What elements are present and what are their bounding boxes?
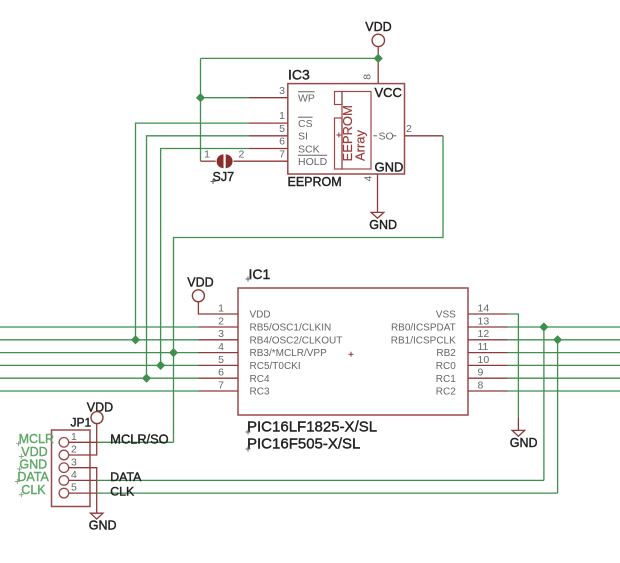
svg-text:VDD: VDD bbox=[365, 20, 391, 34]
wire pin 11 net to right edge bbox=[508, 352, 620, 354]
ground symbol pin (right) bbox=[517, 418, 519, 431]
svg-text:SCK: SCK bbox=[298, 143, 320, 155]
svg-text:CLK: CLK bbox=[21, 483, 46, 497]
wire SO net: right, down, left, down to MCLR/SO row bbox=[174, 136, 444, 443]
svg-text:6: 6 bbox=[218, 367, 224, 379]
svg-text:5: 5 bbox=[218, 354, 224, 366]
svg-text:1: 1 bbox=[279, 110, 285, 122]
pin name VDD bbox=[250, 310, 271, 321]
EEPROM value label bbox=[288, 175, 342, 189]
power symbol VDD (above JP1) bbox=[87, 400, 113, 423]
svg-text:GND: GND bbox=[375, 160, 404, 175]
net label VDD (green, xref) bbox=[19, 445, 48, 459]
svg-text:VDD: VDD bbox=[250, 310, 271, 321]
svg-text:5: 5 bbox=[279, 123, 285, 135]
pin number 2 bbox=[406, 123, 412, 135]
pin name CS (active low) bbox=[298, 117, 313, 130]
pin number 6 bbox=[218, 367, 224, 379]
svg-text:EEPROM: EEPROM bbox=[288, 175, 342, 189]
svg-text:JP1: JP1 bbox=[71, 415, 92, 429]
pin number 1 bbox=[279, 110, 285, 122]
pin number 3 bbox=[218, 328, 224, 340]
svg-text:RB0/ICSPDAT: RB0/ICSPDAT bbox=[391, 323, 456, 334]
wire VSS to ground column bbox=[508, 314, 519, 418]
junction on VDD net at pin 8 column bbox=[374, 54, 383, 63]
wire RC4 net to left edge bbox=[0, 377, 199, 379]
JP1 connector body box bbox=[52, 430, 91, 507]
svg-text:DATA: DATA bbox=[17, 470, 49, 484]
pin number 4 bbox=[218, 341, 224, 353]
wire DATA net from JP1 pin 4 to ICSPDAT column bbox=[97, 479, 544, 481]
junction WP wire tap bbox=[196, 93, 205, 102]
pin name SCK bbox=[298, 143, 320, 155]
pin 1 stub CS bbox=[249, 122, 288, 124]
wire pin 8 net to right edge bbox=[508, 390, 620, 392]
junction CS net at RB4 wire bbox=[131, 335, 140, 344]
JP1 pin 1 stub bbox=[69, 441, 97, 443]
svg-text:6: 6 bbox=[279, 136, 285, 148]
wire RC5 net to left edge bbox=[0, 364, 199, 366]
wire WP/VDD vertical column down to SJ7 bbox=[200, 58, 202, 161]
GND label (below JP1) bbox=[89, 519, 117, 533]
svg-text:GND: GND bbox=[89, 519, 117, 533]
svg-text:GND: GND bbox=[369, 218, 397, 232]
wire CS net: to pin1 stub, corner, down to RB4 row bbox=[136, 123, 250, 340]
net label MCLR (green, xref) bbox=[16, 432, 54, 446]
pin 2 stub (IC3 SO) bbox=[405, 135, 444, 137]
pin 2 stub (IC1 left) bbox=[199, 326, 239, 328]
pin number 3 bbox=[279, 85, 285, 97]
svg-text:7: 7 bbox=[218, 379, 224, 391]
svg-text:RB5/OSC1/CLKIN: RB5/OSC1/CLKIN bbox=[250, 323, 332, 334]
svg-text:PIC16LF1825-X/SL: PIC16LF1825-X/SL bbox=[247, 419, 377, 436]
svg-text:8: 8 bbox=[478, 379, 484, 391]
IC1 value label line 1 bbox=[246, 419, 378, 436]
wire ICSPDAT net down to DATA row bbox=[543, 327, 545, 480]
svg-text:4: 4 bbox=[362, 176, 374, 182]
GND label (right) bbox=[510, 436, 538, 450]
pin 4 stub (IC3 GND) down to ground symbol bbox=[377, 174, 379, 212]
svg-text:3: 3 bbox=[71, 456, 77, 468]
pin name RB5/OSC1/CLKIN bbox=[250, 323, 332, 334]
pin name WP (active low) bbox=[298, 92, 315, 105]
pin number 8 bbox=[478, 379, 484, 391]
pin number 12 bbox=[478, 328, 490, 340]
svg-text:1: 1 bbox=[218, 302, 224, 314]
svg-text:5: 5 bbox=[71, 482, 77, 494]
svg-text:IC3: IC3 bbox=[288, 66, 310, 82]
pin number 2 bbox=[218, 315, 224, 327]
SJ7 pin number 1 bbox=[204, 148, 210, 160]
pin 13 stub (IC1 right) bbox=[468, 326, 508, 328]
SJ7 pin number 2 bbox=[239, 148, 245, 160]
svg-text:VDD: VDD bbox=[187, 276, 213, 290]
JP1 pin 5 contact circle bbox=[59, 488, 69, 498]
junction ICSPDAT net bbox=[539, 322, 548, 331]
JP1 pin 2 contact circle bbox=[59, 450, 69, 460]
svg-text:SO: SO bbox=[379, 130, 394, 142]
svg-text:SI: SI bbox=[298, 131, 308, 143]
pin name RC3 bbox=[250, 387, 270, 398]
pin number 5 bbox=[279, 123, 285, 135]
pin name RB0/ICSPDAT bbox=[391, 323, 456, 334]
svg-text:RC4: RC4 bbox=[250, 374, 270, 385]
wire pin 9 net to right edge bbox=[508, 377, 620, 379]
pin 5 stub (IC1 left) bbox=[199, 364, 239, 366]
svg-text:WP: WP bbox=[298, 93, 315, 105]
svg-text:3: 3 bbox=[218, 328, 224, 340]
wire VDD net horizontal to WP column bbox=[201, 57, 379, 59]
JP1 pin 1 contact circle bbox=[59, 438, 69, 448]
svg-text:8: 8 bbox=[362, 74, 374, 80]
svg-text:11: 11 bbox=[478, 341, 489, 353]
IC1 body box bbox=[238, 288, 468, 415]
pin name HOLD (active low) bbox=[298, 155, 328, 168]
svg-text:GND: GND bbox=[510, 436, 538, 450]
JP1 pin number 1 bbox=[71, 431, 77, 443]
svg-text:RB2: RB2 bbox=[436, 348, 456, 359]
wire SCK net: to pin6 stub, corner, down to RC5 row bbox=[161, 149, 249, 366]
power symbol VDD (top, IC3 VCC net) bbox=[365, 20, 391, 47]
net label DATA (green, xref) bbox=[15, 470, 50, 484]
SJ7 pin 2 stub to IC3 pin 7 (HOLD) bbox=[234, 160, 288, 162]
JP1 pin 4 stub bbox=[69, 479, 97, 481]
ground symbol (below JP1) bbox=[90, 513, 103, 519]
pin name GND (IC3) bbox=[375, 160, 404, 175]
svg-text:12: 12 bbox=[478, 328, 490, 340]
pin name RC1 bbox=[436, 374, 456, 385]
JP1 pin number 3 bbox=[71, 456, 77, 468]
net label GND (green, xref) bbox=[17, 458, 47, 472]
svg-text:MCLR/SO: MCLR/SO bbox=[110, 432, 168, 447]
EEPROM rotated text bbox=[340, 105, 355, 161]
net label CLK bbox=[110, 484, 135, 498]
wire SI net: to pin5 stub, corner, down to RC4 row bbox=[147, 136, 250, 378]
power symbol VDD (above IC1 pin 1) bbox=[187, 276, 213, 302]
pin name VCC bbox=[375, 85, 402, 100]
pin number 13 bbox=[478, 315, 490, 327]
pin number 6 bbox=[279, 136, 285, 148]
svg-text:SJ7: SJ7 bbox=[213, 170, 235, 184]
svg-text:14: 14 bbox=[478, 302, 490, 314]
pin 6 stub SCK bbox=[249, 148, 288, 150]
svg-text:2: 2 bbox=[218, 315, 224, 327]
pin 7 stub (IC1 left) bbox=[199, 390, 239, 392]
ground symbol (below IC3) bbox=[371, 212, 384, 218]
pin name VSS bbox=[436, 310, 456, 321]
pin 4 stub (IC1 left) bbox=[199, 352, 239, 354]
solder jumper SJ7 pads bbox=[217, 154, 233, 168]
net label DATA bbox=[110, 470, 142, 484]
JP1 pin 3 stub and drop to ground symbol bbox=[69, 468, 97, 514]
svg-text:CS: CS bbox=[298, 118, 313, 130]
JP1 pin number 2 bbox=[71, 444, 77, 456]
svg-text:4: 4 bbox=[71, 469, 77, 481]
svg-text:Array: Array bbox=[352, 129, 367, 161]
JP1 pin 3 contact circle bbox=[59, 463, 69, 473]
pin name RC4 bbox=[250, 374, 270, 385]
svg-text:4: 4 bbox=[218, 341, 224, 353]
GND label (below IC3) bbox=[369, 218, 397, 232]
origin cross inside IC1 bbox=[349, 352, 354, 357]
pin name RC0 bbox=[436, 361, 456, 372]
svg-text:RC1: RC1 bbox=[436, 374, 456, 385]
net label CLK (green, xref) bbox=[19, 483, 46, 497]
JP1 pin 2 stub and riser to VDD symbol bbox=[69, 424, 97, 455]
junction SCK net at RC5 wire bbox=[156, 361, 165, 370]
pin number 5 bbox=[218, 354, 224, 366]
wire MCLR/SO net from JP1 pin 1 to SO column bbox=[97, 441, 174, 443]
svg-text:1: 1 bbox=[204, 148, 210, 160]
pin 9 stub (IC1 right) bbox=[468, 377, 508, 379]
svg-text:RB3/*MCLR/VPP: RB3/*MCLR/VPP bbox=[250, 348, 328, 359]
svg-text:RC3: RC3 bbox=[250, 387, 270, 398]
pin number 11 bbox=[478, 341, 489, 353]
pin 3 stub (IC1 left) bbox=[199, 339, 239, 341]
wire RB3 net to left edge bbox=[0, 352, 199, 354]
JP1 pin number 4 bbox=[71, 469, 77, 481]
net label MCLR/SO bbox=[110, 432, 168, 447]
svg-text:VCC: VCC bbox=[375, 85, 402, 100]
JP1 label bbox=[71, 415, 92, 429]
pin 8 stub (IC3 VCC) from VDD symbol to IC3 top bbox=[377, 47, 379, 84]
pin 3 stub WP bbox=[249, 97, 288, 99]
svg-text:RB1/ICSPCLK: RB1/ICSPCLK bbox=[391, 335, 456, 346]
pin number 10 bbox=[478, 354, 490, 366]
svg-text:2: 2 bbox=[406, 123, 412, 135]
wire CLK net from JP1 pin 5 to ICSPCLK column bbox=[97, 492, 558, 494]
IC1 label bbox=[246, 266, 271, 282]
origin cross inside array block bbox=[336, 133, 341, 138]
JP1 pin 5 stub bbox=[69, 492, 97, 494]
SJ7 label bbox=[211, 170, 235, 184]
pin name RC5/T0CKI bbox=[250, 361, 301, 372]
pin number 7 bbox=[279, 148, 285, 160]
svg-text:2: 2 bbox=[71, 444, 77, 456]
pin name SO with tick marks bbox=[373, 130, 396, 142]
svg-text:IC1: IC1 bbox=[249, 266, 271, 282]
Array rotated text bbox=[352, 129, 367, 161]
SJ7 pin 1 stub bbox=[201, 160, 216, 162]
svg-text:VSS: VSS bbox=[436, 310, 456, 321]
pin 14 stub (IC1 right) bbox=[468, 313, 508, 315]
svg-text:RC0: RC0 bbox=[436, 361, 456, 372]
svg-text:RB4/OSC2/CLKOUT: RB4/OSC2/CLKOUT bbox=[250, 335, 343, 346]
svg-text:2: 2 bbox=[239, 148, 245, 160]
pin 11 stub (IC1 right) bbox=[468, 352, 508, 354]
pin name RB4/OSC2/CLKOUT bbox=[250, 335, 343, 346]
pin name RB2 bbox=[436, 348, 456, 359]
svg-text:7: 7 bbox=[279, 148, 285, 160]
pin name RB1/ICSPCLK bbox=[391, 335, 456, 346]
svg-text:CLK: CLK bbox=[110, 484, 135, 498]
wire RB4 net to left edge bbox=[0, 339, 199, 341]
JP1 pin 4 contact circle bbox=[59, 476, 69, 486]
ground symbol (below IC1 VSS) bbox=[512, 430, 525, 436]
wire pin 12 net to right edge bbox=[508, 339, 620, 341]
pin number 7 bbox=[218, 379, 224, 391]
IC1 value label line 2 bbox=[246, 436, 361, 453]
wire RC3 net to left edge bbox=[0, 390, 199, 392]
pin number 9 bbox=[478, 367, 484, 379]
pin number 8 (rotated) bbox=[362, 74, 374, 80]
svg-text:1: 1 bbox=[71, 431, 77, 443]
svg-text:3: 3 bbox=[279, 85, 285, 97]
pin number 1 bbox=[218, 302, 224, 314]
svg-text:10: 10 bbox=[478, 354, 490, 366]
svg-text:RC5/T0CKI: RC5/T0CKI bbox=[250, 361, 301, 372]
pin name SI bbox=[298, 131, 308, 143]
wire pin 13 net to right edge bbox=[508, 326, 620, 328]
JP1 pin number 5 bbox=[71, 482, 77, 494]
wire RB5 net to left edge bbox=[0, 326, 199, 328]
wire ICSPCLK net down to CLK row bbox=[557, 340, 559, 493]
svg-text:HOLD: HOLD bbox=[298, 156, 328, 168]
svg-text:13: 13 bbox=[478, 315, 490, 327]
pin 10 stub (IC1 right) bbox=[468, 364, 508, 366]
svg-text:PIC16F505-X/SL: PIC16F505-X/SL bbox=[247, 436, 360, 453]
wire WP net to pin 3 stub bbox=[201, 97, 250, 99]
pin 12 stub (IC1 right) bbox=[468, 339, 508, 341]
pin 6 stub (IC1 left) bbox=[199, 377, 239, 379]
pin number 14 bbox=[478, 302, 490, 314]
wire pin 10 net to right edge bbox=[508, 364, 620, 366]
pin 1 stub (IC1 VDD) from symbol bbox=[198, 302, 238, 314]
svg-text:RC2: RC2 bbox=[436, 387, 456, 398]
svg-text:DATA: DATA bbox=[110, 470, 142, 484]
IC3 label bbox=[288, 66, 310, 82]
pin name RB3/*MCLR/VPP bbox=[250, 348, 328, 359]
EEPROM array block (inner symbol drawing) bbox=[335, 92, 372, 170]
IC3 EEPROM body box bbox=[288, 84, 405, 174]
pin 8 stub (IC1 right) bbox=[468, 390, 508, 392]
svg-text:9: 9 bbox=[478, 367, 484, 379]
pin number 4 (rotated) bbox=[362, 176, 374, 182]
junction SI net at RC4 wire bbox=[142, 374, 151, 383]
junction SO net at RB3/MCLR wire bbox=[169, 348, 178, 357]
junction ICSPCLK net bbox=[553, 335, 562, 344]
pin 5 stub SI bbox=[249, 135, 288, 137]
pin name RC2 bbox=[436, 387, 456, 398]
